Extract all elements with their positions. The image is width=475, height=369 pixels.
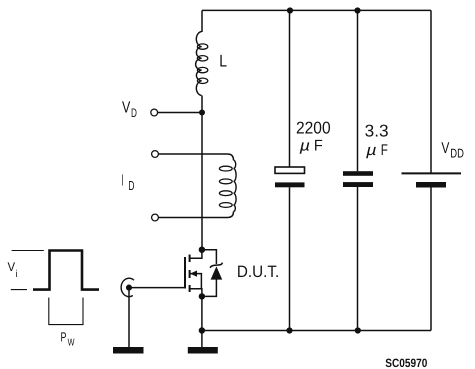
ground bar under connector <box>113 347 144 354</box>
svg-text:L: L <box>219 52 227 71</box>
node top rail cap1 <box>287 7 293 13</box>
waveform PW bracket <box>49 298 83 325</box>
connector input center dot <box>126 285 132 291</box>
node drain <box>199 247 205 253</box>
svg-text:µ: µ <box>300 138 311 155</box>
wire source lead <box>190 289 202 297</box>
wire diode top <box>202 250 216 264</box>
transistor Q1 body arrow <box>190 271 197 277</box>
svg-text:D.U.T.: D.U.T. <box>237 263 279 281</box>
wire cap2 top lead <box>357 10 359 171</box>
wire connector to ground <box>128 290 130 347</box>
svg-text:i: i <box>16 269 18 280</box>
svg-text:2200: 2200 <box>296 118 331 137</box>
terminal ID bottom circle <box>152 214 159 221</box>
ground bar under source <box>188 347 218 354</box>
wire ID bottom <box>158 212 233 218</box>
svg-text:V: V <box>441 140 449 157</box>
diode D1 cathode bar <box>210 263 222 268</box>
wire cap1 top lead <box>289 10 291 167</box>
capacitor C1 2200uF bottom plate <box>275 182 305 187</box>
svg-text:DD: DD <box>450 147 464 161</box>
wire ID top <box>158 154 233 160</box>
wire battery bottom lead <box>430 188 432 331</box>
wire main vertical inductor to drain <box>201 96 203 251</box>
transistor Q1 channel dash middle <box>189 270 191 278</box>
connector input arc <box>121 278 134 296</box>
node source bottom rail <box>199 327 205 333</box>
label PW <box>61 330 75 349</box>
wire source to bottom rail <box>201 296 203 347</box>
label 3.3 uF <box>365 121 389 159</box>
node source <box>199 293 205 299</box>
svg-text:F: F <box>381 142 388 159</box>
diode D1 triangle <box>211 266 223 279</box>
inductor sense coil <box>219 160 236 211</box>
transistor Q1 channel dash bottom <box>189 285 191 292</box>
capacitor C1 2200uF top plate <box>275 167 305 173</box>
terminal ID top circle <box>152 151 159 158</box>
node cap2 bottom rail <box>355 327 361 333</box>
wire bottom rail <box>202 330 431 332</box>
wire diode bottom <box>202 279 216 296</box>
wire right rail down to battery <box>430 10 432 173</box>
label ID <box>121 171 134 193</box>
svg-text:SC05970: SC05970 <box>385 356 427 369</box>
wire cap1 bottom lead <box>289 187 291 330</box>
wire gate lead <box>129 287 185 289</box>
svg-text:W: W <box>68 337 75 348</box>
node top rail cap2 <box>354 7 360 13</box>
label VD <box>122 99 137 121</box>
inductor L <box>196 32 208 96</box>
svg-text:F: F <box>314 138 323 155</box>
waveform pulse <box>33 251 99 290</box>
label Vi <box>8 260 18 280</box>
label 2200 uF <box>296 118 331 154</box>
node cap1 bottom rail <box>286 327 292 333</box>
svg-text:V: V <box>8 260 16 274</box>
wire main vertical above inductor <box>201 10 203 32</box>
wire VD stub <box>158 112 202 114</box>
waveform top reference line <box>12 250 44 252</box>
waveform baseline dash <box>11 289 27 291</box>
battery VDD negative plate <box>416 182 446 188</box>
svg-text:I: I <box>121 171 123 189</box>
svg-text:D: D <box>128 178 134 193</box>
wire drain lead <box>190 250 202 258</box>
svg-text:P: P <box>61 330 67 345</box>
capacitor C2 3.3uF top plate <box>343 171 373 176</box>
transistor Q1 body lead <box>190 274 201 289</box>
svg-text:µ: µ <box>366 142 377 159</box>
capacitor C2 3.3uF bottom plate <box>343 182 373 187</box>
svg-text:3.3: 3.3 <box>365 121 389 140</box>
battery VDD positive plate <box>402 172 462 174</box>
transistor Q1 channel dash top <box>189 255 191 263</box>
node VD junction <box>199 110 205 116</box>
transistor Q1 gate bar <box>184 257 186 289</box>
svg-text:D: D <box>131 106 137 120</box>
label VDD <box>441 140 464 161</box>
terminal VD circle <box>151 109 158 116</box>
svg-text:V: V <box>122 99 130 117</box>
wire top rail <box>202 9 431 11</box>
wire cap2 bottom lead <box>357 187 359 331</box>
